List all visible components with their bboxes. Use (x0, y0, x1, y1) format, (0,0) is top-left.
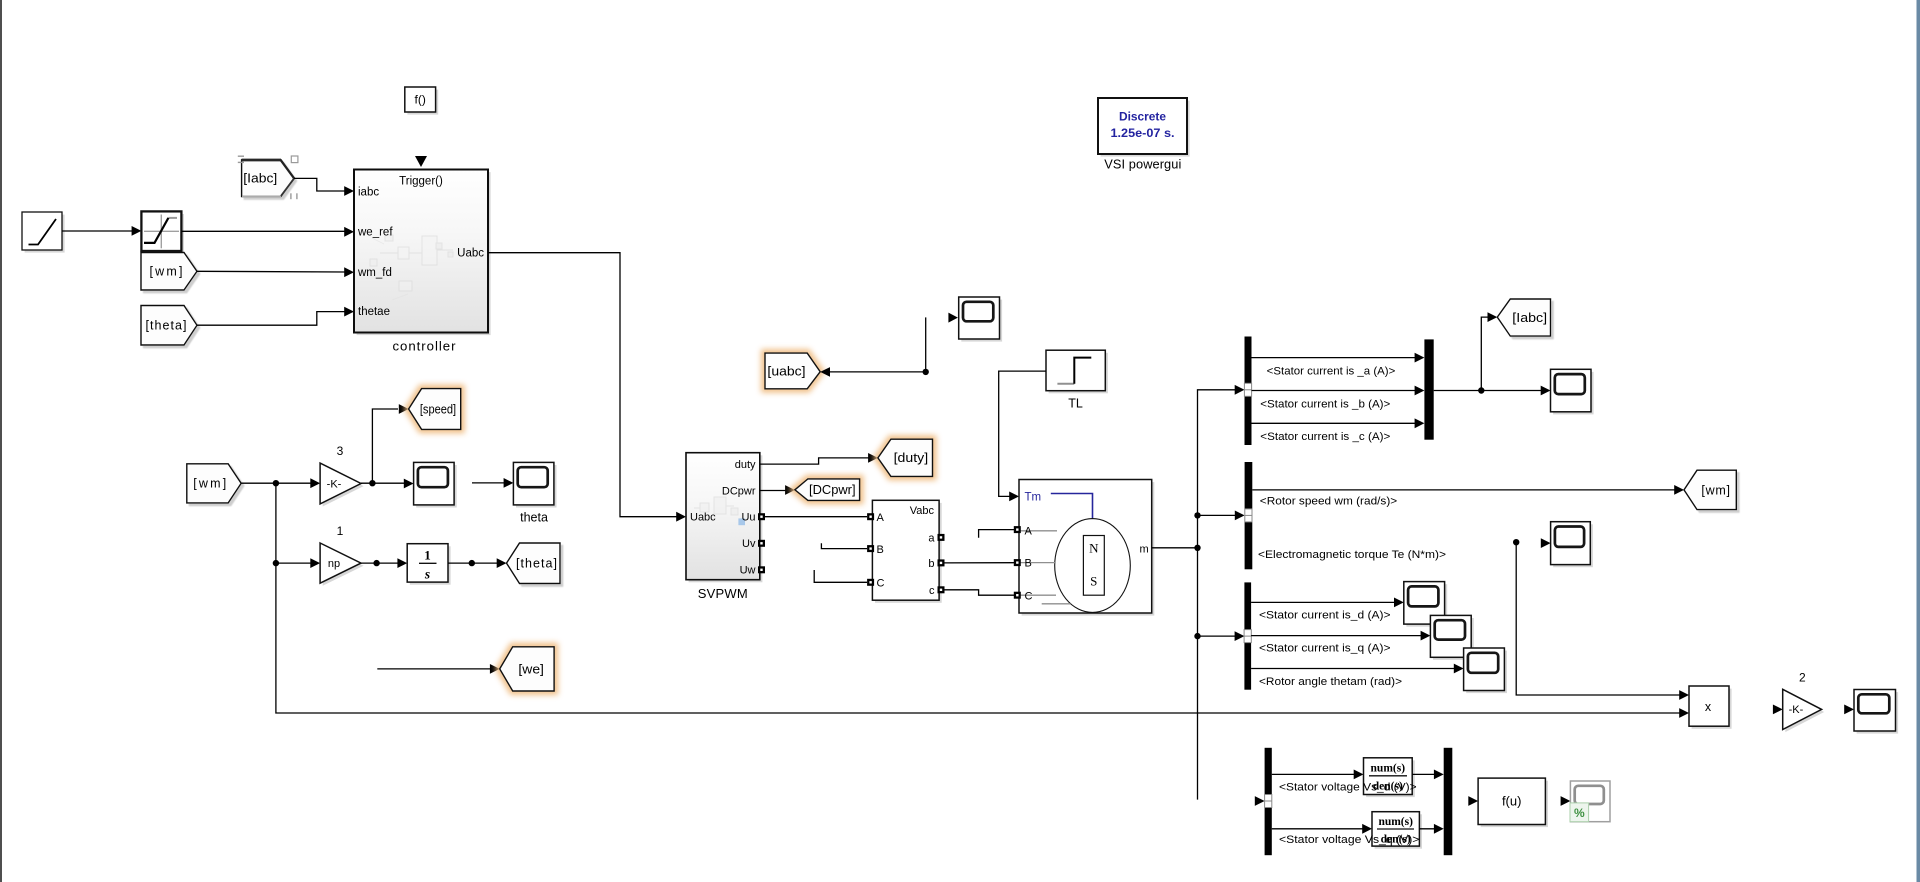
motor gray stub lines (1020, 531, 1070, 604)
mux 4 (1444, 748, 1453, 855)
From block [theta] upper-left (141, 306, 197, 346)
spine branch to bus selector 2 (1198, 514, 1237, 516)
svg-text:C: C (877, 577, 885, 589)
wire into [uabc] from branch (820, 367, 830, 377)
svg-text:[uabc]: [uabc] (767, 364, 805, 378)
commented-out scope block (1561, 796, 1571, 806)
wire stub to VSI C (814, 570, 867, 582)
controller faint preview (370, 235, 453, 300)
PMSM machine block (1022, 482, 1155, 615)
mux 1 (1424, 339, 1433, 439)
bus3 wire thetam to scope (1251, 668, 1455, 670)
dangling arrow into gain 2 (1773, 705, 1783, 715)
dangling branch up toward scope (925, 317, 927, 372)
wire mux1 to scope and goto [Iabc] (1434, 390, 1542, 392)
dangling arrow into end scope (1844, 705, 1854, 715)
wire [Iabc] to controller iabc (294, 178, 346, 191)
dangling wire into theta scope (472, 482, 505, 484)
motor stator ellipse (1055, 519, 1131, 613)
svg-text:SVPWM: SVPWM (698, 586, 748, 601)
dangling wire into goto [we] (377, 668, 491, 670)
svg-text:<Stator voltage Vs_q (V)>: <Stator voltage Vs_q (V)> (1279, 834, 1419, 846)
bus selector 2 (1245, 462, 1253, 569)
svg-text:TL: TL (1068, 397, 1083, 411)
svg-text:B: B (1025, 557, 1032, 569)
svg-text:<Electromagnetic torque Te (N*: <Electromagnetic torque Te (N*m)> (1258, 549, 1446, 561)
svg-text:[Iabc]: [Iabc] (1512, 311, 1547, 325)
svg-text:A: A (877, 512, 885, 524)
wire TL to motor Tm (999, 371, 1046, 496)
svg-text:[theta]: [theta] (516, 557, 557, 571)
SVPWM preview blue mark (738, 518, 745, 525)
svg-text:S: S (1090, 574, 1097, 589)
transfer fcn 1 (1366, 760, 1415, 797)
saturation block (144, 214, 184, 254)
powergui block Discrete 1.25e-07 s. (1101, 101, 1190, 157)
svg-text:Uabc: Uabc (457, 248, 484, 260)
canvas left border (0, 0, 2, 882)
wire ramp to saturation (62, 230, 133, 232)
svg-text:[speed]: [speed] (420, 402, 456, 416)
wire motor m to bus spine (1152, 547, 1198, 549)
svg-text:<Stator voltage Vs_d (V)>: <Stator voltage Vs_d (V)> (1279, 782, 1417, 794)
svg-text:3: 3 (337, 444, 344, 458)
bus3 wire is_q to scope (1251, 635, 1422, 637)
wire VSI c to motor C (945, 590, 1015, 595)
bus4 wire Vs_q to transfer fcn 2 (1272, 828, 1364, 830)
svg-text:[duty]: [duty] (894, 451, 929, 465)
wire branch down to long bottom feed (276, 563, 1681, 713)
bus4 wire Vs_d to transfer fcn (1272, 773, 1355, 775)
selection handles of [Iabc] (291, 156, 298, 163)
junction at wm branch (273, 480, 279, 486)
scope block is_q (1433, 618, 1474, 660)
Goto block [uabc] highlighted (765, 353, 820, 389)
scope block torque (1541, 538, 1551, 548)
wire [wm] to controller wm_fd (197, 270, 346, 273)
svg-text:N: N (1089, 541, 1099, 556)
gain block 3 (-K-) (323, 466, 364, 507)
svg-text:-K-: -K- (327, 478, 342, 490)
Goto block [we] highlighted (500, 647, 554, 691)
bus selector 4 (1265, 748, 1272, 855)
svg-text:controller: controller (393, 339, 457, 354)
wire stub to VSI B (821, 543, 867, 548)
comment-badge percent (1570, 803, 1589, 822)
scope block (wm speed) (416, 465, 457, 508)
svg-text:%: % (1574, 806, 1585, 820)
wire tf2 to mux4 (1419, 828, 1435, 830)
wire VSI b to motor B (945, 562, 1015, 564)
svg-text:VSI powergui: VSI powergui (1104, 157, 1181, 172)
svg-text:1.25e-07 s.: 1.25e-07 s. (1111, 126, 1175, 140)
VSI output electrical ports (938, 534, 945, 541)
svg-text:iabc: iabc (358, 187, 379, 199)
svg-text:Uabc: Uabc (690, 512, 716, 524)
From block [Iabc] selected (242, 160, 294, 197)
motor electrical ports A B C (1014, 526, 1021, 533)
svg-text:Uu: Uu (741, 512, 755, 524)
svg-text:c: c (929, 585, 935, 597)
svg-text:num(s): num(s) (1371, 763, 1406, 775)
wire controller Uabc to SVPWM Uabc (488, 253, 678, 517)
svg-text:we_ref: we_ref (357, 227, 393, 239)
torque junction and feed down to product (1513, 539, 1519, 545)
Goto block [speed] highlighted (409, 389, 461, 430)
svg-text:<Stator current is _a (A)>: <Stator current is _a (A)> (1267, 366, 1396, 378)
canvas right scrollbar border (1917, 0, 1920, 882)
svg-text:Vabc: Vabc (910, 505, 935, 517)
scope block near uabc (948, 313, 958, 323)
svg-text:<Stator current is _b (A)>: <Stator current is _b (A)> (1260, 398, 1390, 410)
svg-text:<Rotor angle thetam (rad)>: <Rotor angle thetam (rad)> (1259, 676, 1402, 688)
bus selector 3 (1244, 582, 1251, 689)
wire DCpwr to goto [DCpwr] (760, 490, 787, 492)
svg-text:theta: theta (520, 511, 548, 525)
svg-text:1: 1 (337, 524, 344, 538)
wire np to integrator (361, 562, 399, 564)
wire saturation to controller we_ref (181, 230, 346, 232)
svg-text:[theta]: [theta] (146, 319, 187, 333)
svg-text:x: x (1705, 700, 1712, 714)
junction m to spine (1194, 545, 1200, 551)
subsystem SVPWM (689, 455, 763, 582)
svg-text:<Stator current is_q (A)>: <Stator current is_q (A)> (1259, 643, 1391, 655)
wire tf1 to mux4 (1412, 773, 1435, 775)
Goto block [theta] (507, 543, 561, 584)
svg-text:a: a (928, 532, 935, 544)
SVPWM faint preview (694, 497, 738, 515)
spine branch to bus selector 3 (1198, 635, 1237, 637)
bus selector 1 (1245, 337, 1252, 446)
svg-text:-K-: -K- (1789, 704, 1804, 716)
VSI input electrical ports (867, 513, 874, 520)
scope block thetam (1466, 651, 1507, 694)
wire rotor speed to goto [wm] (1252, 489, 1675, 491)
Goto block [DCpwr] highlighted (795, 479, 860, 501)
wire [wm] to gain 3 with branch (241, 482, 312, 484)
Fcn block f(u) (1468, 796, 1478, 806)
scope block Iabc (1553, 372, 1594, 415)
VSI bridge block Vabc (875, 503, 942, 603)
svg-text:thetae: thetae (358, 306, 390, 318)
subsystem controller (357, 172, 491, 335)
wire duty to goto [duty] (760, 458, 870, 464)
bus3 wire is_d to scope (1251, 601, 1395, 603)
selection emphasis edges of [Iabc] (242, 159, 281, 162)
gain block np (323, 546, 364, 586)
svg-text:f(u): f(u) (1502, 794, 1522, 809)
wire branch down from wm to np gain (276, 483, 312, 563)
svg-text:C: C (1025, 590, 1033, 602)
svg-text:A: A (1025, 525, 1033, 537)
svg-text:2: 2 (1799, 670, 1806, 684)
svg-text:<Rotor speed wm (rad/s)>: <Rotor speed wm (rad/s)> (1260, 495, 1397, 507)
svg-text:num(s): num(s) (1378, 816, 1413, 828)
svg-text:Trigger(): Trigger() (399, 176, 443, 188)
svg-text:wm_fd: wm_fd (357, 267, 392, 279)
svg-text:Discrete: Discrete (1119, 110, 1166, 124)
trigger port arrow on controller (415, 156, 427, 167)
svg-text:<Stator current is _c (A)>: <Stator current is _c (A)> (1260, 431, 1390, 443)
Goto block [Iabc] right (1497, 299, 1550, 336)
Goto block [duty] highlighted (878, 439, 933, 476)
Goto block [wm] right (1684, 470, 1736, 509)
svg-text:duty: duty (735, 459, 756, 471)
function-call block f() (407, 90, 438, 115)
svg-text:B: B (877, 544, 884, 556)
wire up to goto [speed] (372, 409, 398, 483)
wire integrator to goto [theta] (448, 562, 498, 564)
bus1 output wires into mux (1252, 357, 1417, 359)
ramp source block (25, 215, 65, 253)
svg-text:1: 1 (424, 548, 431, 563)
svg-text:DCpwr: DCpwr (722, 485, 756, 497)
svg-text:[DCpwr]: [DCpwr] (809, 483, 856, 497)
step block TL (flipped) (1049, 353, 1108, 394)
svg-text:[we]: [we] (518, 662, 544, 676)
svg-text:Tm: Tm (1025, 492, 1042, 504)
svg-text:<Stator current is_d (A)>: <Stator current is_d (A)> (1259, 609, 1391, 621)
scope block is_d (1406, 584, 1447, 627)
svg-text:Uw: Uw (740, 565, 756, 577)
gain block 2 (-K-) (1785, 692, 1824, 732)
wire [theta] to controller thetae (197, 312, 346, 326)
scope block end (1857, 692, 1899, 734)
svg-text:b: b (928, 558, 934, 570)
wire Uu to VSI A (765, 516, 867, 518)
svg-text:f(): f() (415, 93, 426, 107)
integrator block 1/s (410, 546, 451, 584)
motor magnet N-S (1083, 536, 1104, 596)
transfer fcn 2 (1375, 814, 1422, 848)
SVPWM electrical ports Uu Uv Uw (758, 513, 765, 520)
scope block theta (516, 465, 557, 508)
product block x (1692, 689, 1732, 729)
bus spine vertical (1198, 390, 1237, 800)
svg-text:[wm]: [wm] (1701, 483, 1730, 497)
svg-text:s: s (424, 567, 430, 582)
svg-text:np: np (328, 558, 340, 570)
wire gain3 to scope with branch to [speed] (361, 482, 405, 484)
From block [wm] mid-left (187, 464, 241, 503)
svg-text:Uv: Uv (742, 538, 756, 550)
From block [wm] upper-left (141, 253, 197, 291)
svg-text:[Iabc]: [Iabc] (243, 172, 277, 186)
junction at np branch (273, 560, 279, 566)
svg-text:m: m (1140, 544, 1149, 556)
wire VSI a to motor A (with stub) (979, 530, 1014, 538)
